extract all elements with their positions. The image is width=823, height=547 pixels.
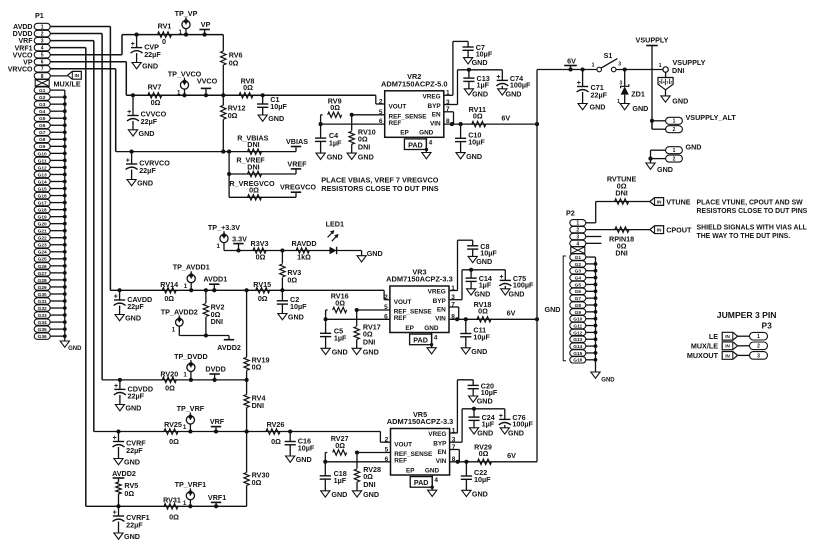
- svg-text:22µF: 22µF: [141, 117, 158, 126]
- svg-text:RV31: RV31: [163, 496, 181, 505]
- svg-text:VIN: VIN: [436, 458, 447, 465]
- svg-text:DNI: DNI: [615, 189, 627, 198]
- svg-text:DNI: DNI: [247, 162, 259, 171]
- svg-text:G19: G19: [38, 215, 47, 221]
- svg-text:AVDD: AVDD: [13, 24, 32, 31]
- svg-text:JUMPER 3 PIN: JUMPER 3 PIN: [717, 310, 777, 320]
- svg-text:SHIELD SIGNALS WITH VIAS ALL: SHIELD SIGNALS WITH VIAS ALL: [697, 224, 807, 231]
- svg-text:GND: GND: [363, 348, 379, 357]
- svg-text:GND: GND: [506, 89, 522, 98]
- svg-text:+: +: [113, 435, 117, 442]
- svg-text:VSUPPLY_ALT: VSUPPLY_ALT: [686, 113, 737, 122]
- svg-text:GND: GND: [332, 348, 348, 357]
- svg-text:PLACE VBIAS, VREF 7 VREGVCO: PLACE VBIAS, VREF 7 VREGVCO: [321, 175, 439, 184]
- svg-text:10µF: 10µF: [290, 302, 307, 311]
- svg-text:G4: G4: [575, 276, 582, 282]
- svg-text:G16: G16: [38, 193, 47, 199]
- svg-text:GND: GND: [477, 428, 493, 437]
- svg-text:1: 1: [184, 283, 188, 290]
- svg-text:PAD: PAD: [414, 478, 429, 487]
- svg-text:GND: GND: [472, 89, 488, 98]
- svg-text:G6: G6: [39, 123, 46, 129]
- svg-text:1: 1: [659, 63, 662, 69]
- svg-text:0Ω: 0Ω: [287, 275, 297, 284]
- svg-text:3: 3: [576, 234, 579, 240]
- svg-text:8: 8: [41, 74, 44, 80]
- svg-text:2: 2: [576, 228, 579, 234]
- svg-text:G31: G31: [38, 299, 47, 305]
- svg-text:G22: G22: [38, 236, 47, 242]
- svg-text:22µF: 22µF: [128, 392, 145, 401]
- svg-text:MUX/LE: MUX/LE: [691, 341, 718, 350]
- svg-text:ADM7150ACPZ-5.0: ADM7150ACPZ-5.0: [381, 79, 448, 88]
- svg-text:0Ω: 0Ω: [164, 294, 174, 303]
- svg-text:G2: G2: [39, 95, 46, 101]
- svg-text:PLACE VTUNE, CPOUT AND SW: PLACE VTUNE, CPOUT AND SW: [697, 199, 804, 206]
- svg-text:1: 1: [217, 243, 221, 250]
- svg-text:1: 1: [673, 148, 676, 154]
- svg-text:VIN: VIN: [430, 120, 441, 127]
- svg-text:22µF: 22µF: [127, 302, 144, 311]
- svg-text:GND: GND: [363, 490, 379, 499]
- svg-text:G1: G1: [575, 255, 582, 261]
- svg-text:G14: G14: [38, 179, 47, 185]
- svg-text:0Ω: 0Ω: [473, 112, 483, 121]
- svg-text:IN: IN: [657, 228, 662, 233]
- svg-text:GND: GND: [471, 347, 487, 356]
- svg-text:VIN: VIN: [435, 316, 446, 323]
- svg-text:1µF: 1µF: [482, 420, 495, 429]
- svg-text:+: +: [131, 41, 135, 48]
- svg-text:GND: GND: [296, 455, 312, 464]
- svg-text:VREF: VREF: [287, 159, 307, 168]
- svg-text:BYP: BYP: [433, 441, 447, 448]
- svg-text:VVCO: VVCO: [197, 77, 218, 86]
- svg-text:G24: G24: [38, 250, 47, 256]
- svg-text:G12: G12: [573, 330, 582, 336]
- svg-text:1: 1: [172, 327, 176, 334]
- svg-text:AVDD2: AVDD2: [112, 469, 136, 478]
- svg-text:5: 5: [41, 53, 44, 59]
- svg-text:VP: VP: [201, 20, 211, 29]
- svg-text:G4: G4: [39, 109, 46, 115]
- svg-text:+: +: [127, 109, 131, 116]
- svg-text:TP_DVDD: TP_DVDD: [174, 352, 208, 361]
- svg-text:G13: G13: [573, 337, 582, 343]
- svg-text:GND: GND: [288, 313, 304, 322]
- svg-text:VRF1: VRF1: [15, 45, 33, 52]
- svg-text:G29: G29: [38, 285, 47, 291]
- svg-text:G3: G3: [575, 269, 582, 275]
- svg-text:RESISTORS CLOSE TO DUT PINS: RESISTORS CLOSE TO DUT PINS: [321, 184, 438, 193]
- svg-text:0Ω: 0Ω: [335, 441, 345, 450]
- svg-text:GND: GND: [124, 458, 140, 467]
- svg-text:GND: GND: [672, 96, 688, 105]
- svg-text:22µF: 22µF: [126, 520, 143, 529]
- svg-text:EN: EN: [437, 307, 446, 314]
- svg-text:G27: G27: [38, 271, 47, 277]
- svg-text:TP_AVDD2: TP_AVDD2: [161, 307, 198, 316]
- svg-text:3.3V: 3.3V: [232, 235, 247, 244]
- svg-text:IN: IN: [725, 334, 730, 339]
- svg-text:G12: G12: [38, 165, 47, 171]
- svg-text:RV26: RV26: [267, 420, 285, 429]
- svg-text:TP_VP: TP_VP: [175, 9, 198, 18]
- svg-text:1: 1: [673, 119, 676, 125]
- svg-text:DVDD: DVDD: [205, 364, 225, 373]
- svg-text:GND: GND: [472, 490, 488, 499]
- svg-text:G5: G5: [39, 116, 46, 122]
- svg-text:GND: GND: [601, 378, 615, 384]
- svg-text:GND: GND: [686, 143, 702, 152]
- svg-text:GND: GND: [367, 249, 383, 258]
- svg-text:3: 3: [41, 39, 44, 45]
- svg-text:0Ω: 0Ω: [252, 478, 262, 487]
- svg-text:VP: VP: [23, 59, 33, 66]
- svg-text:6: 6: [41, 60, 44, 66]
- svg-text:1µF: 1µF: [479, 281, 492, 290]
- svg-text:VREGVCO: VREGVCO: [280, 182, 316, 191]
- svg-text:RV14: RV14: [160, 280, 178, 289]
- svg-text:22µF: 22µF: [591, 90, 608, 99]
- svg-text:G5: G5: [575, 282, 582, 288]
- svg-text:DNI: DNI: [247, 140, 259, 149]
- svg-text:+: +: [114, 383, 118, 390]
- svg-text:G9: G9: [575, 310, 582, 316]
- svg-text:1: 1: [592, 62, 595, 68]
- svg-text:G7: G7: [39, 130, 46, 136]
- svg-text:3: 3: [618, 62, 621, 68]
- svg-text:10µF: 10µF: [473, 333, 490, 342]
- svg-text:10µF: 10µF: [298, 444, 315, 453]
- svg-text:VRVCO: VRVCO: [8, 66, 33, 73]
- svg-text:1: 1: [177, 89, 181, 96]
- svg-text:P3: P3: [762, 321, 773, 331]
- svg-text:GND: GND: [425, 467, 440, 474]
- svg-text:IN: IN: [725, 353, 730, 358]
- svg-text:RV7: RV7: [148, 83, 162, 92]
- svg-text:EP: EP: [405, 325, 414, 332]
- svg-text:G33: G33: [38, 313, 47, 319]
- svg-text:G21: G21: [38, 229, 47, 235]
- svg-text:0Ω: 0Ω: [271, 437, 281, 446]
- svg-text:IN: IN: [75, 73, 80, 78]
- svg-text:GND: GND: [590, 103, 606, 112]
- svg-text:1: 1: [617, 99, 620, 105]
- svg-text:CPOUT: CPOUT: [666, 225, 692, 234]
- svg-text:G35: G35: [38, 327, 47, 333]
- svg-text:0Ω: 0Ω: [243, 83, 253, 92]
- svg-text:G14: G14: [573, 344, 582, 350]
- svg-text:RV1: RV1: [158, 22, 172, 31]
- svg-text:100µF: 100µF: [512, 420, 533, 429]
- svg-text:GND: GND: [419, 130, 434, 137]
- svg-text:G11: G11: [38, 158, 47, 164]
- svg-text:G36: G36: [38, 334, 47, 340]
- svg-text:2: 2: [670, 81, 672, 85]
- svg-text:1: 1: [757, 334, 760, 340]
- svg-text:VRF: VRF: [19, 38, 34, 45]
- svg-text:GND: GND: [125, 404, 141, 413]
- svg-text:LED1: LED1: [326, 219, 344, 228]
- svg-text:G23: G23: [38, 243, 47, 249]
- svg-text:+: +: [496, 74, 500, 81]
- svg-text:4: 4: [434, 477, 438, 484]
- svg-text:G11: G11: [573, 323, 582, 329]
- svg-text:3: 3: [667, 81, 669, 85]
- svg-text:3: 3: [757, 353, 760, 359]
- svg-text:IN: IN: [725, 344, 730, 349]
- svg-text:G10: G10: [38, 151, 47, 157]
- svg-text:0Ω: 0Ω: [165, 383, 175, 392]
- svg-text:VREG: VREG: [428, 431, 446, 438]
- svg-text:REF: REF: [394, 458, 407, 465]
- svg-text:GND: GND: [509, 289, 525, 298]
- svg-text:GND: GND: [476, 257, 492, 266]
- svg-text:2: 2: [673, 127, 676, 133]
- svg-text:RESISTORS CLOSE TO DUT PINS: RESISTORS CLOSE TO DUT PINS: [697, 208, 808, 215]
- svg-text:PAD: PAD: [408, 140, 423, 149]
- svg-text:1: 1: [183, 372, 187, 379]
- svg-text:R3V3: R3V3: [251, 239, 269, 248]
- svg-text:REF: REF: [394, 315, 407, 322]
- svg-text:4: 4: [41, 46, 44, 52]
- svg-text:REF: REF: [389, 120, 402, 127]
- svg-text:DNI: DNI: [363, 338, 375, 347]
- svg-text:EP: EP: [400, 130, 409, 137]
- svg-text:0Ω: 0Ω: [169, 513, 179, 522]
- svg-text:1µF: 1µF: [329, 138, 342, 147]
- svg-text:2: 2: [757, 344, 760, 350]
- svg-text:+: +: [126, 158, 130, 165]
- svg-text:P1: P1: [35, 11, 44, 20]
- svg-text:EP: EP: [406, 467, 415, 474]
- svg-text:3: 3: [619, 80, 622, 86]
- svg-text:VSUPPLY: VSUPPLY: [636, 35, 669, 44]
- svg-text:GND: GND: [137, 179, 153, 188]
- svg-text:AVDD2: AVDD2: [217, 343, 241, 352]
- svg-text:G16: G16: [573, 358, 582, 364]
- svg-text:G2: G2: [575, 262, 582, 268]
- svg-text:GND: GND: [358, 152, 374, 161]
- svg-text:4: 4: [429, 140, 433, 147]
- svg-text:4: 4: [434, 335, 438, 342]
- svg-text:EN: EN: [438, 449, 447, 456]
- svg-text:DNI: DNI: [252, 401, 264, 410]
- svg-text:TP_VRF: TP_VRF: [177, 404, 205, 413]
- svg-text:G8: G8: [39, 137, 46, 143]
- svg-text:0Ω: 0Ω: [229, 59, 239, 68]
- svg-text:10µF: 10µF: [270, 102, 287, 111]
- svg-text:0Ω: 0Ω: [256, 252, 266, 261]
- svg-text:G17: G17: [38, 200, 47, 206]
- svg-text:DVDD: DVDD: [13, 31, 33, 38]
- svg-text:VREG: VREG: [428, 289, 446, 296]
- svg-text:GND: GND: [474, 289, 490, 298]
- svg-text:0Ω: 0Ω: [124, 489, 134, 498]
- svg-text:G25: G25: [38, 257, 47, 263]
- svg-text:RV25: RV25: [164, 420, 182, 429]
- svg-text:1: 1: [179, 29, 183, 36]
- svg-text:MUXOUT: MUXOUT: [687, 351, 719, 360]
- svg-text:IN: IN: [657, 199, 662, 204]
- svg-text:G13: G13: [38, 172, 47, 178]
- svg-text:AVDD1: AVDD1: [203, 274, 227, 283]
- svg-text:G8: G8: [575, 303, 582, 309]
- svg-text:0Ω: 0Ω: [479, 449, 489, 458]
- svg-text:EN: EN: [432, 111, 441, 118]
- svg-text:2: 2: [673, 157, 676, 163]
- svg-text:G28: G28: [38, 278, 47, 284]
- svg-text:THE WAY TO THE DUT PINS.: THE WAY TO THE DUT PINS.: [697, 233, 791, 240]
- svg-text:VRF: VRF: [210, 417, 225, 426]
- svg-text:22µF: 22µF: [126, 446, 143, 455]
- svg-text:1µF: 1µF: [334, 476, 347, 485]
- svg-text:100µF: 100µF: [510, 81, 531, 90]
- svg-text:0Ω: 0Ω: [228, 111, 238, 120]
- svg-text:0: 0: [162, 37, 166, 46]
- svg-text:VOUT: VOUT: [389, 104, 407, 111]
- svg-text:ADM7150ACPZ-3.3: ADM7150ACPZ-3.3: [387, 417, 454, 426]
- svg-text:10µF: 10µF: [474, 475, 491, 484]
- svg-text:6V: 6V: [507, 309, 516, 318]
- svg-text:0Ω: 0Ω: [169, 437, 179, 446]
- svg-text:GND: GND: [68, 346, 82, 352]
- svg-text:6V: 6V: [501, 113, 510, 122]
- svg-text:VRF1: VRF1: [208, 493, 226, 502]
- svg-text:GND: GND: [268, 114, 284, 123]
- svg-text:G34: G34: [38, 320, 47, 326]
- svg-text:1µF: 1µF: [477, 81, 490, 90]
- svg-text:1µF: 1µF: [334, 334, 347, 343]
- svg-text:G20: G20: [38, 222, 47, 228]
- svg-text:0Ω: 0Ω: [151, 98, 161, 107]
- svg-text:DNI: DNI: [358, 142, 370, 151]
- svg-text:1kΩ: 1kΩ: [297, 252, 311, 261]
- svg-text:1: 1: [183, 500, 187, 507]
- svg-text:5: 5: [659, 81, 661, 85]
- svg-text:VBIAS: VBIAS: [286, 137, 308, 146]
- svg-text:P2: P2: [566, 209, 575, 218]
- svg-text:GND: GND: [508, 428, 524, 437]
- svg-text:S1: S1: [604, 51, 613, 60]
- svg-text:RV15: RV15: [253, 280, 271, 289]
- svg-text:TP_VRF1: TP_VRF1: [175, 480, 207, 489]
- svg-text:GND: GND: [331, 490, 347, 499]
- svg-text:BYP: BYP: [427, 103, 441, 110]
- svg-text:G3: G3: [39, 102, 46, 108]
- svg-text:GND: GND: [125, 314, 141, 323]
- svg-text:GND: GND: [632, 104, 648, 113]
- svg-text:10µF: 10µF: [468, 138, 485, 147]
- svg-text:+: +: [113, 510, 117, 517]
- svg-text:0Ω: 0Ω: [335, 298, 345, 307]
- svg-text:GND: GND: [424, 325, 439, 332]
- svg-text:GND: GND: [466, 152, 482, 161]
- svg-text:GND: GND: [472, 58, 488, 67]
- svg-text:6V: 6V: [567, 56, 576, 65]
- svg-text:100µF: 100µF: [513, 281, 534, 290]
- svg-text:GND: GND: [142, 62, 158, 71]
- svg-text:G32: G32: [38, 306, 47, 312]
- svg-text:RAVDD: RAVDD: [291, 239, 316, 248]
- svg-text:2: 2: [41, 31, 44, 37]
- svg-text:G26: G26: [38, 264, 47, 270]
- svg-text:G9: G9: [39, 144, 46, 150]
- svg-text:BYP: BYP: [433, 298, 447, 305]
- svg-text:22µF: 22µF: [144, 50, 161, 59]
- svg-text:VREG: VREG: [422, 94, 440, 101]
- svg-text:+: +: [114, 294, 118, 301]
- svg-text:GND: GND: [124, 532, 140, 541]
- svg-text:1: 1: [183, 424, 187, 431]
- svg-text:VOUT: VOUT: [394, 441, 412, 448]
- svg-text:DNI: DNI: [615, 248, 627, 257]
- svg-text:+: +: [499, 413, 503, 420]
- svg-text:G1: G1: [39, 88, 46, 94]
- svg-text:TP_AVDD1: TP_AVDD1: [173, 263, 210, 272]
- svg-text:1: 1: [576, 221, 579, 227]
- svg-text:PAD: PAD: [413, 336, 428, 345]
- svg-text:G7: G7: [575, 296, 582, 302]
- svg-text:ADM7150ACPZ-3.3: ADM7150ACPZ-3.3: [386, 275, 453, 284]
- svg-text:GND: GND: [657, 165, 673, 174]
- svg-text:0Ω: 0Ω: [330, 103, 340, 112]
- svg-text:GND: GND: [545, 305, 561, 314]
- svg-text:0Ω: 0Ω: [258, 294, 268, 303]
- svg-text:MUX/LE: MUX/LE: [54, 80, 81, 89]
- svg-text:2: 2: [379, 99, 383, 106]
- svg-text:+: +: [499, 274, 503, 281]
- svg-text:GND: GND: [477, 397, 493, 406]
- svg-text:TP_+3.3V: TP_+3.3V: [208, 223, 240, 232]
- svg-text:LE: LE: [709, 332, 718, 341]
- svg-text:G15: G15: [38, 186, 47, 192]
- svg-text:DNI: DNI: [211, 317, 223, 326]
- svg-text:6V: 6V: [507, 451, 516, 460]
- svg-text:G30: G30: [38, 292, 47, 298]
- svg-text:VOUT: VOUT: [394, 299, 412, 306]
- svg-text:VVCO: VVCO: [13, 52, 33, 59]
- svg-text:0Ω: 0Ω: [478, 307, 488, 316]
- svg-text:ZD1: ZD1: [631, 89, 645, 98]
- svg-text:DNI: DNI: [672, 66, 684, 75]
- svg-text:DNI: DNI: [363, 480, 375, 489]
- svg-text:4: 4: [663, 81, 665, 85]
- svg-text:22µF: 22µF: [139, 166, 156, 175]
- svg-text:G10: G10: [573, 317, 582, 323]
- svg-text:G15: G15: [573, 351, 582, 357]
- svg-text:1: 1: [41, 24, 44, 30]
- svg-text:0Ω: 0Ω: [249, 185, 259, 194]
- svg-text:VTUNE: VTUNE: [666, 197, 691, 206]
- svg-text:GND: GND: [327, 152, 343, 161]
- svg-text:0Ω: 0Ω: [252, 363, 262, 372]
- svg-text:+: +: [577, 80, 581, 87]
- svg-text:GND: GND: [139, 129, 155, 138]
- svg-text:7: 7: [41, 67, 44, 73]
- svg-text:RV20: RV20: [160, 369, 178, 378]
- svg-text:G18: G18: [38, 208, 47, 214]
- svg-text:G6: G6: [575, 289, 582, 295]
